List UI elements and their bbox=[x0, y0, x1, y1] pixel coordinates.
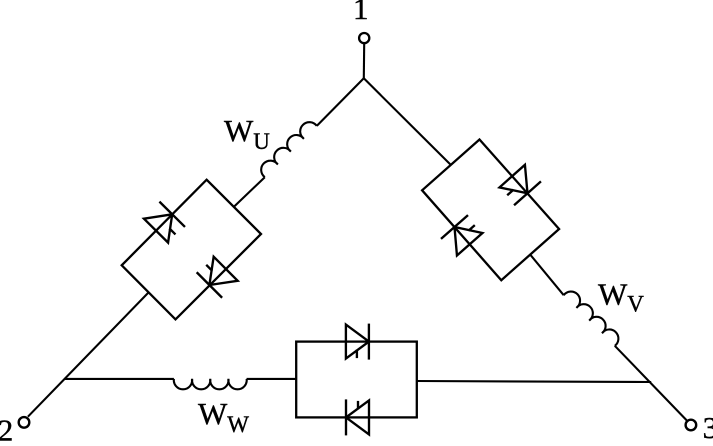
thyristor V3 (right box, upper, conducts toward terminal 3) bbox=[499, 164, 541, 205]
wire bottom box to node J3 bbox=[417, 381, 651, 382]
svg-text:WW: WW bbox=[198, 396, 249, 437]
wire terminal 1 to node J1 bbox=[363, 44, 366, 79]
terminal 3 circle bbox=[686, 420, 697, 431]
wire left box to terminal 2 (through node J2) bbox=[28, 292, 149, 416]
thyristor V2 (left box, lower, conducts toward terminal 2) bbox=[197, 256, 239, 298]
thyristor V5 (bottom box, top, conducts toward terminal 3) bbox=[346, 324, 369, 360]
wire node J1 to right thyristor box bbox=[364, 78, 451, 165]
wire winding WU to left thyristor box bbox=[234, 177, 265, 207]
winding WU (inductor) bbox=[257, 118, 317, 177]
svg-text:1: 1 bbox=[353, 0, 369, 26]
wire winding WW to bottom thyristor box bbox=[247, 378, 297, 380]
wire right box to winding WV bbox=[530, 255, 564, 296]
thyristor V6 (bottom box, bottom, conducts toward terminal 2) bbox=[346, 399, 369, 435]
terminal 1 circle bbox=[359, 33, 369, 43]
thyristor V1 (left box, upper, conducts toward terminal 1) bbox=[143, 202, 185, 244]
terminal 2 circle bbox=[19, 417, 30, 428]
winding WV (inductor) bbox=[564, 288, 623, 346]
wire winding WV to terminal 3 (through node J3) bbox=[615, 346, 687, 421]
wire node J1 to winding WU bbox=[317, 78, 364, 126]
thyristor V4 (right box, lower, conducts toward terminal 1) bbox=[441, 215, 483, 256]
left thyristor box outline bbox=[122, 180, 261, 320]
svg-text:WV: WV bbox=[598, 277, 644, 317]
svg-text:3: 3 bbox=[703, 410, 713, 441]
wire node J2 to winding WW bbox=[65, 378, 174, 380]
svg-text:WU: WU bbox=[224, 113, 270, 154]
bottom thyristor box outline bbox=[296, 342, 417, 418]
right thyristor box outline bbox=[422, 140, 559, 281]
svg-text:2: 2 bbox=[0, 413, 13, 442]
winding WW (inductor) bbox=[174, 379, 247, 389]
